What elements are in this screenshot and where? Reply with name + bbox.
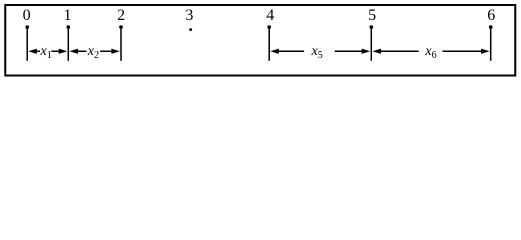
node 2 stem wire — [120, 27, 122, 61]
svg-text:6: 6 — [487, 7, 495, 24]
dimension arrow x5 left head — [270, 49, 279, 54]
svg-text:2: 2 — [117, 7, 125, 24]
svg-text:1: 1 — [64, 7, 72, 24]
svg-text:x1: x1 — [40, 44, 52, 61]
node 2 dot — [119, 25, 123, 29]
dimension arrow x1 left head — [28, 49, 37, 54]
dimension arrow x1 left shaft — [36, 50, 40, 52]
dimension arrow x5 right shaft — [335, 50, 364, 52]
dimension arrow x6 left head — [372, 49, 381, 54]
node 1 dot — [66, 25, 70, 29]
node 5 stem wire — [370, 27, 372, 61]
node 4 stem wire — [268, 27, 270, 61]
node 0 stem wire — [26, 27, 28, 61]
dimension arrow x6 right head — [481, 49, 490, 54]
node 1 stem wire — [67, 27, 69, 61]
svg-text:4: 4 — [266, 7, 274, 24]
node 5 dot — [369, 25, 373, 29]
dimension arrow x5 right head — [362, 49, 371, 54]
dimension arrow x2 right head — [111, 49, 120, 54]
svg-text:x6: x6 — [424, 44, 436, 61]
dimension arrow x5 left shaft — [278, 50, 304, 52]
node 0 dot — [25, 25, 29, 29]
svg-text:0: 0 — [23, 7, 31, 24]
svg-text:x2: x2 — [87, 44, 99, 61]
node 3 dot — [189, 28, 192, 31]
node 6 stem wire — [490, 27, 492, 61]
dimension arrow x2 left shaft — [77, 50, 86, 52]
frame border — [5, 5, 515, 76]
dimension arrow x6 left shaft — [380, 50, 419, 52]
dimension arrow x2 right shaft — [100, 50, 113, 52]
node 6 dot — [489, 25, 493, 29]
svg-text:5: 5 — [368, 7, 376, 24]
svg-text:x5: x5 — [311, 44, 323, 61]
dimension arrow x1 right shaft — [51, 50, 59, 52]
svg-text:3: 3 — [185, 7, 193, 24]
dimension arrow x2 left head — [69, 49, 78, 54]
dimension arrow x1 right head — [59, 49, 67, 54]
node 4 dot — [267, 25, 271, 29]
dimension arrow x6 right shaft — [442, 50, 482, 52]
